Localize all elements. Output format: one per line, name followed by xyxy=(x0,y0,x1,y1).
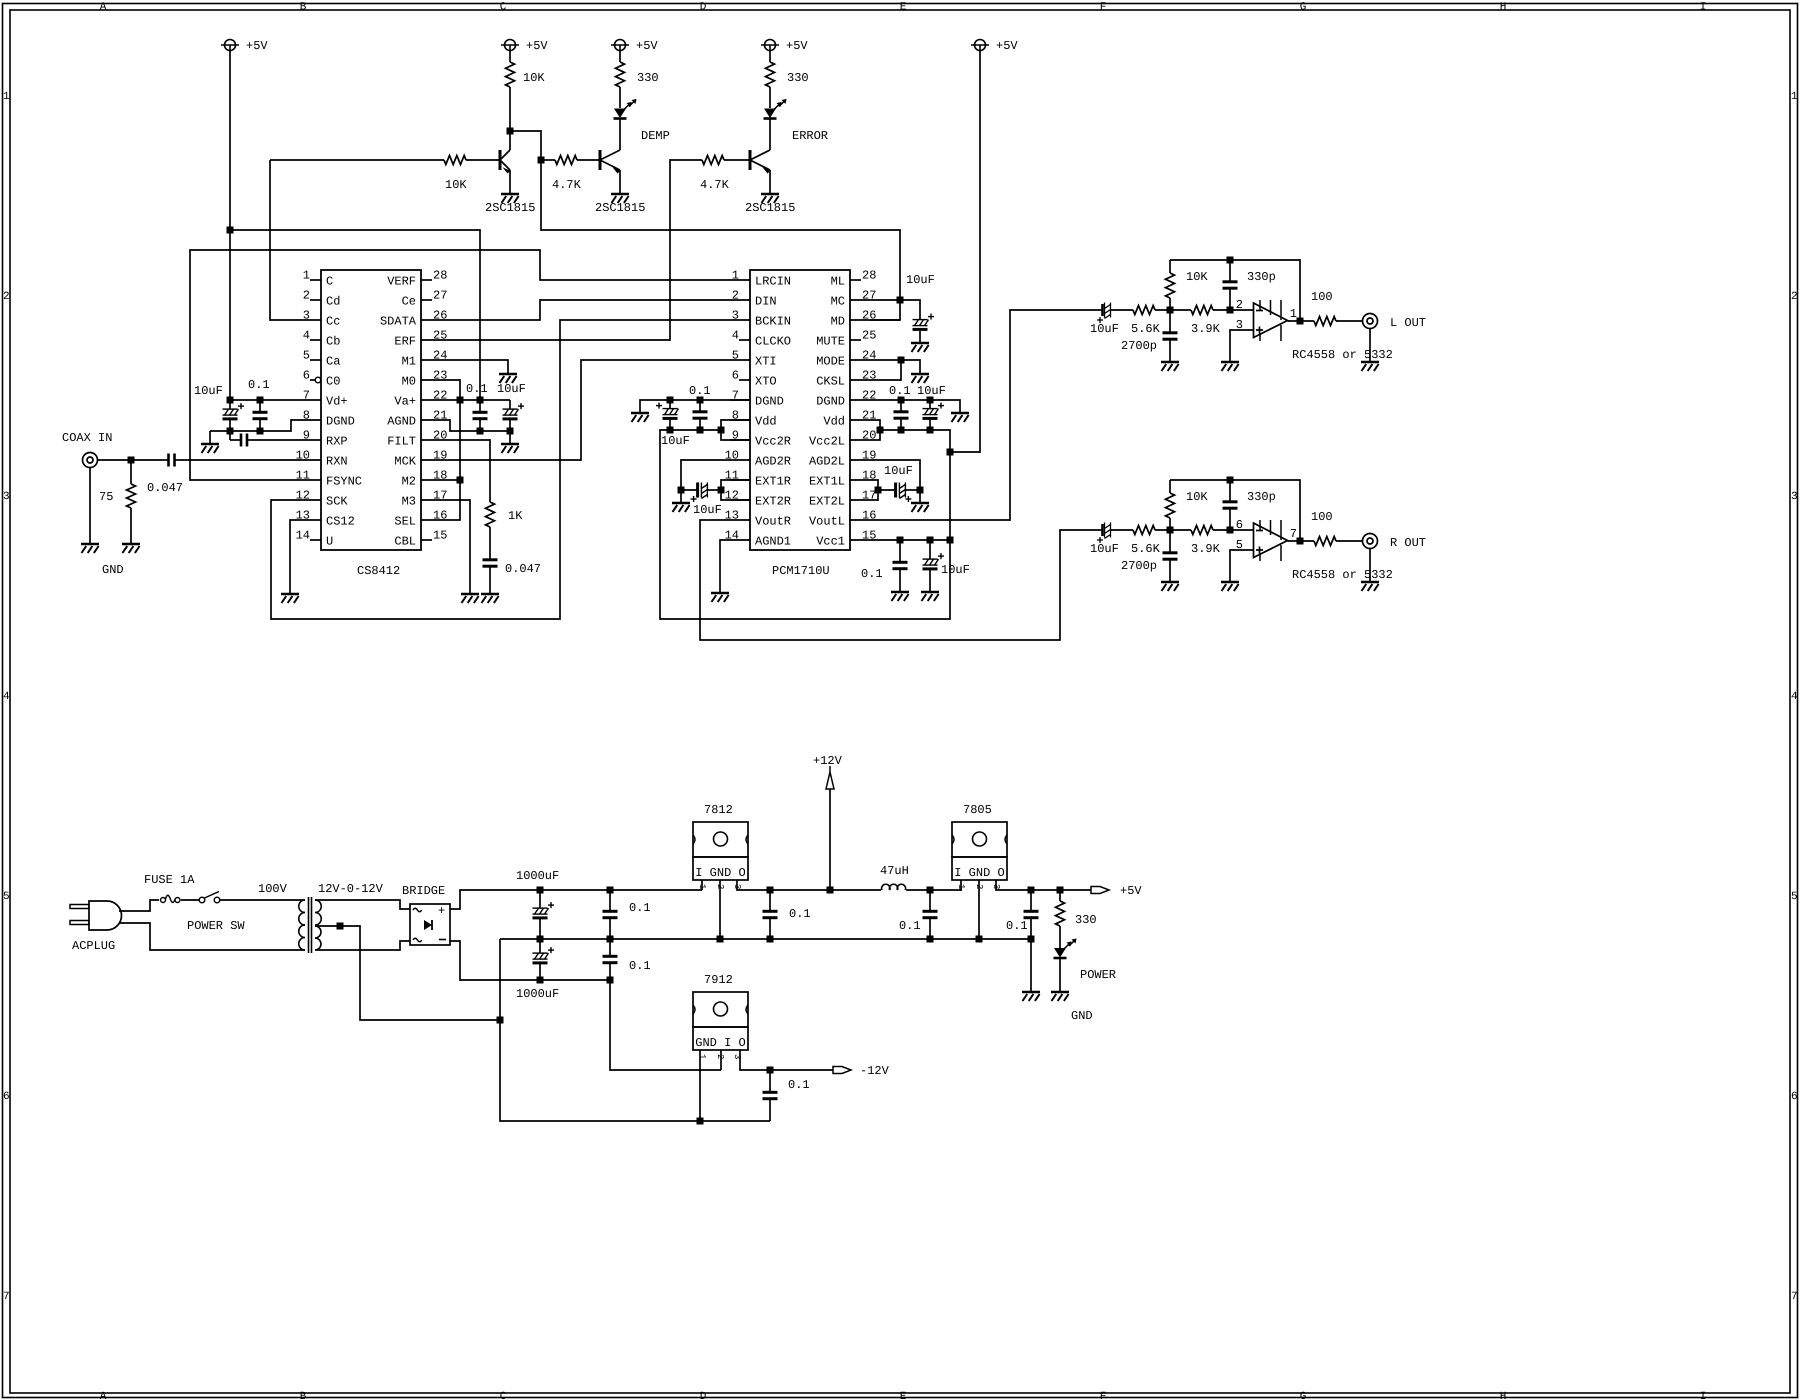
junction +12V tap xyxy=(827,887,834,894)
svg-text:330p: 330p xyxy=(1247,270,1276,284)
svg-text:H: H xyxy=(1500,2,1507,14)
wire secondary top to bridge xyxy=(315,900,410,909)
bridge rectifier xyxy=(410,904,450,945)
CS8412 pin 12 SCK xyxy=(296,489,349,509)
svg-text:3: 3 xyxy=(1791,491,1798,503)
ground M3 xyxy=(461,594,479,603)
capacitor 10uF at Vd+ xyxy=(223,400,245,431)
svg-text:R OUT: R OUT xyxy=(1390,536,1426,550)
svg-text:100: 100 xyxy=(1311,510,1333,524)
CS8412 pin 10 RXN xyxy=(296,449,348,469)
capacitor 10uF input L OUT xyxy=(1097,303,1133,324)
svg-text:+5V: +5V xyxy=(526,39,548,53)
svg-text:0.047: 0.047 xyxy=(505,562,541,576)
CS8412 pin 2 Cd xyxy=(303,289,341,309)
junction Vd+ cap2 xyxy=(257,397,264,404)
resistor R 100 L OUT xyxy=(1314,317,1362,326)
svg-text:D: D xyxy=(700,2,707,14)
wire Vd+ pin7 xyxy=(230,399,301,401)
svg-text:GND I O: GND I O xyxy=(695,1036,745,1050)
svg-text:GND: GND xyxy=(102,563,124,577)
wire bridge plus output xyxy=(450,890,702,909)
capacitor 10uF EXT right xyxy=(681,483,721,503)
PCM1710U pin 23 CKSL xyxy=(816,369,876,389)
svg-text:10uF: 10uF xyxy=(693,503,722,517)
svg-text:BCKIN: BCKIN xyxy=(755,315,791,329)
svg-text:6: 6 xyxy=(3,1091,10,1103)
CS8412 pin 16 SEL xyxy=(394,509,447,529)
wire EXT1L EXT2L bracket xyxy=(870,480,878,500)
capacitor 10uF input R OUT xyxy=(1097,523,1133,544)
ground 2700p L OUT xyxy=(1161,362,1179,371)
svg-text:2: 2 xyxy=(715,1054,725,1059)
wire negative rail to 7912 xyxy=(610,980,721,1070)
svg-text:7812: 7812 xyxy=(704,803,733,817)
CS8412 pin 4 Cb xyxy=(303,329,341,349)
wire switch to transformer xyxy=(220,899,305,901)
junction DGND22 cap2 xyxy=(927,397,934,404)
svg-text:10uF: 10uF xyxy=(884,464,913,478)
wire AGD2L decouple xyxy=(870,460,920,490)
svg-text:EXT2L: EXT2L xyxy=(809,495,845,509)
svg-text:LRCIN: LRCIN xyxy=(755,275,791,289)
CS8412 pin 18 M2 xyxy=(402,469,448,489)
wire MCK to XTI xyxy=(441,360,730,460)
junction Vcc1 +5 xyxy=(947,537,954,544)
resistor R 330 POWER xyxy=(1056,890,1065,949)
junction 1000uF+ bottom xyxy=(537,936,544,943)
wire jack ground L OUT xyxy=(1369,329,1371,362)
svg-text:COAX IN: COAX IN xyxy=(62,431,112,445)
ground M1 xyxy=(499,374,517,383)
wire DGND rail left xyxy=(210,420,301,431)
svg-text:4: 4 xyxy=(1791,691,1798,703)
PCM1710U pin 12 EXT2R xyxy=(725,489,791,509)
resistor R 100 R OUT xyxy=(1314,537,1362,546)
wire DGND pin7 left xyxy=(640,400,750,412)
svg-text:2700p: 2700p xyxy=(1121,559,1157,573)
junction EXT1R xyxy=(718,487,725,494)
svg-text:ML: ML xyxy=(831,275,845,289)
junction 7812 gnd xyxy=(717,936,724,943)
wire center tap riser xyxy=(500,939,770,1121)
svg-text:CS12: CS12 xyxy=(326,515,355,529)
CS8412 pin 28 VERF xyxy=(387,269,447,289)
svg-text:EXT2R: EXT2R xyxy=(755,495,791,509)
PCM1710U pin 19 AGD2L xyxy=(809,449,876,469)
svg-text:M0: M0 xyxy=(402,375,416,389)
border zone numbers right xyxy=(1791,91,1798,1303)
junction 330p bottom R OUT xyxy=(1227,527,1234,534)
wire AGD2R ground drop xyxy=(680,490,682,502)
wire MODE CKSL tie xyxy=(870,360,920,373)
wire Vdd rail to +5 net xyxy=(660,430,950,619)
svg-text:C: C xyxy=(500,1391,507,1400)
ground MODE xyxy=(911,374,929,383)
svg-text:0.1: 0.1 xyxy=(466,382,488,396)
wire Q1 emitter xyxy=(509,170,511,193)
resistor R 10K base Q1 xyxy=(270,156,500,165)
svg-text:BRIDGE: BRIDGE xyxy=(402,884,445,898)
svg-text:10uF: 10uF xyxy=(917,384,946,398)
PCM1710U pin 10 AGD2R xyxy=(725,449,791,469)
capacitor 0.1 at Vdd left rail xyxy=(894,400,909,430)
ground Q3 emitter xyxy=(761,194,779,203)
svg-text:1: 1 xyxy=(1791,91,1798,103)
svg-text:2SC1815: 2SC1815 xyxy=(595,201,645,215)
PCM1710U pin 16 VoutL xyxy=(809,509,876,529)
wire +5V tap to Va+ xyxy=(230,230,480,400)
junction Q2 base drive xyxy=(538,157,545,164)
svg-text:7: 7 xyxy=(303,389,310,403)
svg-text:Vdd: Vdd xyxy=(755,415,777,429)
svg-text:RXP: RXP xyxy=(326,435,348,449)
ground DGND PCM right xyxy=(951,413,969,422)
junction output R OUT xyxy=(1297,538,1304,545)
svg-text:1: 1 xyxy=(1290,307,1297,321)
resistor R 10K feedback R OUT xyxy=(1166,480,1175,530)
wire 7812 gnd lead xyxy=(719,880,721,939)
junction rail cap1 xyxy=(667,427,674,434)
svg-text:0.1: 0.1 xyxy=(899,919,921,933)
wire Vcc1 xyxy=(870,539,950,541)
regulator 7805 xyxy=(952,822,1007,889)
junction AGND rail 1 xyxy=(477,428,484,435)
ground 0V rail xyxy=(1022,992,1040,1001)
svg-text:F: F xyxy=(1100,2,1107,14)
capacitor 1000uF negative xyxy=(533,939,555,980)
wire bridge minus output xyxy=(450,941,610,980)
svg-text:I GND O: I GND O xyxy=(695,866,745,880)
svg-text:C0: C0 xyxy=(326,375,340,389)
wire plug neutral lead xyxy=(119,923,305,950)
wire CKSL join xyxy=(870,360,901,380)
svg-text:+5V: +5V xyxy=(246,39,268,53)
wire ERROR LED to Q3 collector xyxy=(769,118,771,150)
svg-text:2: 2 xyxy=(3,291,10,303)
svg-text:I: I xyxy=(1700,2,1707,14)
junction DGND22 cap1 xyxy=(898,397,905,404)
svg-text:POWER: POWER xyxy=(1080,968,1116,982)
svg-text:12V-0-12V: 12V-0-12V xyxy=(318,882,384,896)
junction 0.1 5vin bottom xyxy=(927,936,934,943)
wire FILT filter xyxy=(441,440,490,502)
wire Q1 collector to MC/MD net xyxy=(510,131,900,320)
svg-text:7912: 7912 xyxy=(704,973,733,987)
svg-text:25: 25 xyxy=(862,329,876,343)
svg-text:100V: 100V xyxy=(258,882,288,896)
PCM1710U pin 1 LRCIN xyxy=(730,269,791,289)
svg-text:2700p: 2700p xyxy=(1121,339,1157,353)
wire 7805 gnd lead xyxy=(978,880,980,939)
wire CS12 to ground xyxy=(290,520,301,593)
border zone letters bottom xyxy=(100,1391,1707,1400)
junction Vcc2L bracket xyxy=(877,427,884,434)
border zone letters top xyxy=(100,2,1707,14)
capacitor 2700p L OUT xyxy=(1163,310,1178,361)
junction COAX xyxy=(128,457,135,464)
CS8412 pin 6 C0 xyxy=(303,369,341,389)
wire Vdd Vcc2L bracket xyxy=(870,420,880,440)
junction M2 xyxy=(457,477,464,484)
wire M0 M2 SEL tie xyxy=(441,380,460,520)
junction Vd+ cap1 xyxy=(227,397,234,404)
wire feedback top L OUT xyxy=(1170,260,1300,321)
svg-text:Ce: Ce xyxy=(402,295,416,309)
CS8412 pin 22 Va+ xyxy=(394,389,447,409)
ground jack L OUT xyxy=(1361,362,1379,371)
svg-text:E: E xyxy=(900,1391,907,1400)
PCM1710U pin 13 VoutR xyxy=(725,509,791,529)
CS8412 pin 5 Ca xyxy=(303,349,341,369)
PCM1710U pin 11 EXT1R xyxy=(725,469,791,489)
svg-text:G: G xyxy=(1300,1391,1307,1400)
wire 7812 pin1 lead xyxy=(701,880,703,890)
wire zero volt rail xyxy=(500,938,1031,940)
wire AGND rail xyxy=(441,420,510,431)
junction LED tap xyxy=(1057,887,1064,894)
wire fuse to switch xyxy=(181,899,199,901)
junction Q1 collector xyxy=(507,128,514,135)
svg-text:3: 3 xyxy=(732,309,739,323)
svg-text:RC4558 or 5332: RC4558 or 5332 xyxy=(1292,348,1393,362)
svg-text:8: 8 xyxy=(303,409,310,423)
junction 0.1 12v bottom xyxy=(767,936,774,943)
junction DGND rail 2 xyxy=(257,428,264,435)
svg-text:28: 28 xyxy=(433,269,447,283)
junction 0.1 rect mid xyxy=(607,936,614,943)
svg-text:CKSL: CKSL xyxy=(816,375,845,389)
wire AGD2L ground drop xyxy=(919,490,921,502)
svg-text:2: 2 xyxy=(1791,291,1798,303)
svg-text:Vcc2L: Vcc2L xyxy=(809,435,845,449)
PCM1710U pin 25 MUTE xyxy=(816,329,876,349)
svg-text:2: 2 xyxy=(732,289,739,303)
ground AGD2R xyxy=(672,503,690,512)
capacitor 1000uF positive xyxy=(533,890,555,939)
svg-text:XTI: XTI xyxy=(755,355,777,369)
CS8412 pin 21 AGND xyxy=(387,409,447,429)
junction AGD2L xyxy=(917,487,924,494)
resistor R 5.6K L OUT xyxy=(1133,306,1191,315)
ground CS12 xyxy=(281,594,299,603)
wire plug hot lead xyxy=(119,900,159,911)
svg-text:10uF: 10uF xyxy=(497,382,526,396)
svg-text:1K: 1K xyxy=(508,509,523,523)
svg-text:Vcc2R: Vcc2R xyxy=(755,435,791,449)
wire COAX to RXN xyxy=(98,459,164,461)
ground DGND PCM left xyxy=(631,413,649,422)
svg-text:1000uF: 1000uF xyxy=(516,987,559,1001)
svg-text:+: + xyxy=(438,904,445,918)
resistor R 10K feedback L OUT xyxy=(1166,260,1175,310)
svg-text:0.1: 0.1 xyxy=(629,959,651,973)
svg-text:0.1: 0.1 xyxy=(1006,919,1028,933)
svg-text:7805: 7805 xyxy=(963,803,992,817)
svg-text:Vd+: Vd+ xyxy=(326,395,348,409)
capacitor 0.1 at 5V out xyxy=(1024,890,1039,939)
junction 1000uF+ top xyxy=(537,887,544,894)
PCM1710U pin 27 MC xyxy=(831,289,877,309)
capacitor 0.1 at Vd+ xyxy=(253,400,268,431)
junction AGD2R xyxy=(678,487,685,494)
wire SCK to BCKIN xyxy=(271,320,730,619)
svg-text:330: 330 xyxy=(1075,913,1097,927)
PCM1710U pin 5 XTI xyxy=(730,349,777,369)
wire AGND ground drop xyxy=(509,431,511,443)
wire MC decouple xyxy=(870,300,920,310)
svg-text:L OUT: L OUT xyxy=(1390,316,1426,330)
junction input node L OUT xyxy=(1167,307,1174,314)
wire FSYNC to LRCIN xyxy=(190,250,730,480)
wire COAX shield xyxy=(89,468,91,544)
svg-text:ERROR: ERROR xyxy=(792,129,828,143)
PCM1710U pin 2 DIN xyxy=(730,289,777,309)
PCM1710U pin 21 Vdd xyxy=(823,409,876,429)
regulator 7912 xyxy=(693,992,748,1059)
wire VoutL to L OUT xyxy=(870,310,1100,520)
svg-text:Cb: Cb xyxy=(326,335,340,349)
svg-text:AGD2L: AGD2L xyxy=(809,455,845,469)
junction 0.1 5vin top xyxy=(927,887,934,894)
svg-text:10K: 10K xyxy=(1186,490,1208,504)
junction 0.1 rect top xyxy=(607,887,614,894)
svg-text:Vcc1: Vcc1 xyxy=(816,535,845,549)
power arrow -12V xyxy=(833,1067,851,1074)
CS8412 pin 24 M1 xyxy=(402,349,448,369)
junction +5V feed xyxy=(947,449,954,456)
svg-text:MUTE: MUTE xyxy=(816,335,845,349)
svg-text:ERF: ERF xyxy=(394,335,416,349)
capacitor 0.1 at 7805 input xyxy=(923,890,938,939)
svg-text:15: 15 xyxy=(433,529,447,543)
svg-text:6: 6 xyxy=(1791,1091,1798,1103)
wire +5V feed xyxy=(950,51,980,452)
PCM1710U pin 17 EXT2L xyxy=(809,489,876,509)
svg-text:1: 1 xyxy=(732,269,739,283)
junction 0.1 12v top xyxy=(767,887,774,894)
junction 7912 gnd xyxy=(697,1118,704,1125)
svg-text:10K: 10K xyxy=(523,71,545,85)
PCM1710U pin 4 CLCKO xyxy=(732,329,791,349)
resistor R 330 ERROR xyxy=(766,51,775,108)
+5V power symbol xyxy=(761,40,779,51)
svg-text:H: H xyxy=(1500,1391,1507,1400)
capacitor 10uF at Vdd right rail xyxy=(656,400,679,430)
capacitor 330p R OUT xyxy=(1223,480,1238,530)
svg-text:0.1: 0.1 xyxy=(629,901,651,915)
svg-text:28: 28 xyxy=(862,269,876,283)
CS8412 pin 14 U xyxy=(296,529,334,549)
svg-text:0.1: 0.1 xyxy=(861,567,883,581)
border zone numbers left xyxy=(3,91,10,1303)
svg-text:PCM1710U: PCM1710U xyxy=(772,564,830,578)
svg-text:ACPLUG: ACPLUG xyxy=(72,939,115,953)
svg-text:330: 330 xyxy=(637,71,659,85)
svg-text:+5V: +5V xyxy=(996,39,1018,53)
ground DGND left xyxy=(201,444,219,453)
junction 0.1 rect bot xyxy=(607,977,614,984)
svg-text:EXT1R: EXT1R xyxy=(755,475,791,489)
svg-text:1: 1 xyxy=(303,269,310,283)
svg-text:7: 7 xyxy=(1791,1291,1798,1303)
svg-text:10K: 10K xyxy=(445,178,467,192)
svg-text:Vdd: Vdd xyxy=(823,415,845,429)
switch POWER SW xyxy=(199,892,220,903)
svg-text:1: 1 xyxy=(697,1054,707,1059)
capacitor 0.1 at Vdd right rail xyxy=(693,400,708,430)
junction EXT1L xyxy=(875,487,882,494)
junction 7805 gnd xyxy=(976,936,983,943)
junction feedback cap top L OUT xyxy=(1227,257,1234,264)
svg-text:AGND: AGND xyxy=(387,415,416,429)
wire Q1 base to CS8412 Cc pin3 xyxy=(270,160,301,320)
junction 1000uF- bottom xyxy=(537,977,544,984)
svg-text:DGND: DGND xyxy=(755,395,784,409)
junction -12V cap xyxy=(767,1067,774,1074)
svg-text:3: 3 xyxy=(3,491,10,503)
CS8412 pin 9 RXP xyxy=(301,429,348,449)
junction DGND7 cap2 xyxy=(697,397,704,404)
transformer T1 xyxy=(299,897,322,953)
power arrow +5V xyxy=(1091,887,1109,894)
connector COAX IN xyxy=(83,453,98,468)
CS8412 pin 20 FILT xyxy=(387,429,447,449)
capacitor 0.047 FILT xyxy=(483,556,498,593)
svg-text:4: 4 xyxy=(732,329,739,343)
junction MODE xyxy=(898,357,905,364)
svg-text:VERF: VERF xyxy=(387,275,416,289)
svg-text:B: B xyxy=(300,2,307,14)
junction rail cap3 xyxy=(898,427,905,434)
PCM1710U pin 3 BCKIN xyxy=(730,309,791,329)
ground POWER LED xyxy=(1051,992,1069,1001)
ground Va+ caps xyxy=(501,444,519,453)
svg-text:GND: GND xyxy=(1071,1009,1093,1023)
svg-text:1: 1 xyxy=(3,91,10,103)
CS8412 pin 1 C xyxy=(303,269,333,289)
CS8412 pin 11 FSYNC xyxy=(296,469,362,489)
wire feedback top R OUT xyxy=(1170,480,1300,541)
wire Va+ pin22 xyxy=(441,399,510,401)
svg-text:7: 7 xyxy=(1290,527,1297,541)
svg-text:3.9K: 3.9K xyxy=(1191,542,1221,556)
CS8412 pin 26 SDATA xyxy=(380,309,447,329)
svg-text:25: 25 xyxy=(433,329,447,343)
svg-text:A: A xyxy=(100,2,107,14)
CS8412 pin 15 CBL xyxy=(394,529,447,549)
capacitor 10uF EXT left xyxy=(878,483,920,503)
wire AGND1 ground xyxy=(720,540,730,592)
CS8412 pin 23 M0 xyxy=(402,369,448,389)
capacitor 0.1 at 12V xyxy=(763,890,778,939)
connector R OUT jack xyxy=(1363,534,1378,549)
svg-text:AGND1: AGND1 xyxy=(755,535,791,549)
wire SDATA to DIN xyxy=(441,300,730,320)
svg-text:5: 5 xyxy=(303,349,310,363)
svg-text:10uF: 10uF xyxy=(1090,542,1119,556)
svg-text:C: C xyxy=(500,2,507,14)
svg-text:M3: M3 xyxy=(402,495,416,509)
resistor R 4.7K base Q3 xyxy=(702,156,750,165)
resistor R 3.9K L OUT xyxy=(1191,306,1253,315)
wire 7805 pin1 lead xyxy=(960,880,962,890)
junction center tap xyxy=(337,923,344,930)
junction DGND rail 1 xyxy=(227,428,234,435)
svg-text:5.6K: 5.6K xyxy=(1131,542,1161,556)
svg-text:+12V: +12V xyxy=(813,754,843,768)
svg-text:2: 2 xyxy=(1236,298,1243,312)
